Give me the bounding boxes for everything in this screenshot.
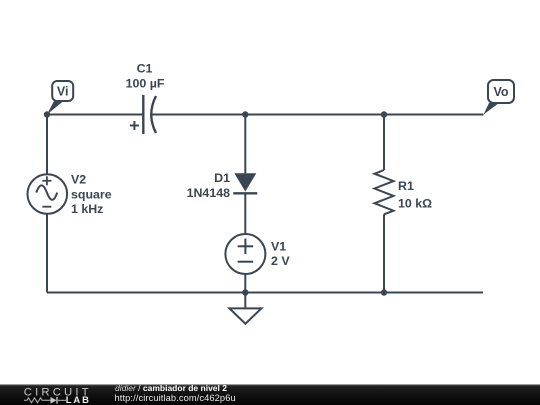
node junction dot bottom-middle bbox=[242, 289, 248, 295]
svg-text:100 µF: 100 µF bbox=[126, 77, 165, 91]
wire middle vertical (V1 bottom to bottom rail) bbox=[244, 274, 246, 293]
wire right vertical (R1 bottom to bottom rail) bbox=[383, 214, 385, 292]
wire ground stub bbox=[244, 293, 246, 309]
svg-text:C1: C1 bbox=[137, 62, 153, 76]
node Vo flag bbox=[484, 80, 515, 115]
svg-text:http://circuitlab.com/c462p6u: http://circuitlab.com/c462p6u bbox=[115, 393, 236, 403]
capacitor C1 bbox=[126, 62, 165, 135]
wire top-left horizontal (Vi node to C1 left plate) bbox=[47, 114, 143, 116]
node junction dot top-right bbox=[381, 111, 387, 117]
svg-text:Vi: Vi bbox=[57, 85, 69, 99]
voltage source V1 bbox=[225, 234, 290, 274]
svg-text:2 V: 2 V bbox=[271, 254, 290, 268]
svg-text:V2: V2 bbox=[71, 173, 86, 187]
svg-text:Vo: Vo bbox=[493, 85, 508, 99]
svg-text:1 kHz: 1 kHz bbox=[71, 202, 103, 216]
svg-text:V1: V1 bbox=[271, 240, 286, 254]
svg-text:10 kΩ: 10 kΩ bbox=[398, 196, 432, 210]
voltage source V2 bbox=[28, 173, 112, 216]
wire left vertical (V2 bottom to bottom rail) bbox=[46, 214, 48, 293]
ground bbox=[229, 308, 261, 323]
diode D1 bbox=[187, 171, 258, 200]
footer bar bbox=[0, 385, 540, 405]
svg-text:square: square bbox=[71, 187, 112, 201]
node junction dot top-middle bbox=[242, 111, 248, 117]
wire left vertical (Vi node to V2 top) bbox=[46, 115, 48, 175]
svg-text:didier / cambiador de nivel 2: didier / cambiador de nivel 2 bbox=[115, 383, 227, 393]
svg-text:LAB: LAB bbox=[66, 394, 91, 405]
wire middle vertical (D1 cathode to V1 top) bbox=[244, 193, 246, 234]
node junction dot bottom-right bbox=[381, 289, 387, 295]
svg-text:D1: D1 bbox=[214, 171, 230, 185]
wire middle vertical (top rail to D1 anode) bbox=[244, 115, 246, 174]
node Vi flag bbox=[47, 81, 73, 115]
CircuitLab logo bbox=[24, 387, 92, 405]
node junction dot top-left (Vi) bbox=[44, 111, 50, 117]
wire right vertical (top rail to R1 top) bbox=[383, 115, 385, 171]
resistor R1 bbox=[375, 170, 433, 214]
wire top-right horizontal (C1 right plate to Vo pointer) bbox=[151, 114, 484, 116]
wire bottom rail bbox=[47, 292, 483, 294]
svg-text:1N4148: 1N4148 bbox=[187, 186, 231, 200]
svg-text:R1: R1 bbox=[398, 179, 414, 193]
